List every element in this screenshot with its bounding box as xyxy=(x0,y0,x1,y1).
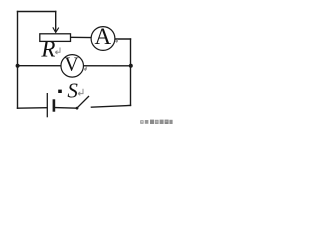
svg-text:A: A xyxy=(94,24,111,49)
svg-text:R: R xyxy=(40,37,55,62)
svg-text:S: S xyxy=(67,79,78,103)
svg-text:V: V xyxy=(64,54,78,75)
